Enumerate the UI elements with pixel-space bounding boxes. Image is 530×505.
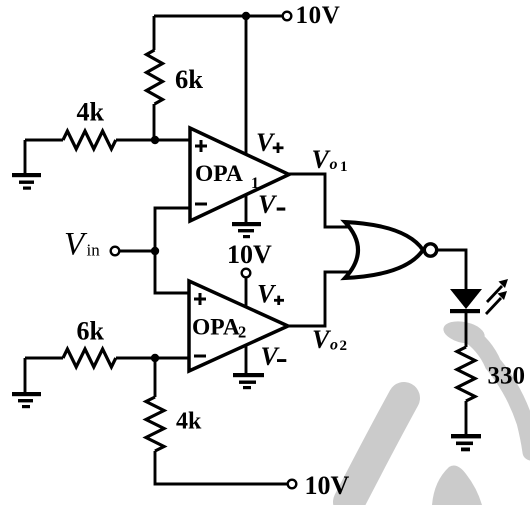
svg-text:4k: 4k bbox=[176, 409, 202, 435]
svg-text:o: o bbox=[330, 156, 338, 173]
svg-text:V: V bbox=[258, 190, 278, 219]
svg-text:2: 2 bbox=[238, 323, 246, 342]
svg-text:10V: 10V bbox=[305, 471, 350, 500]
svg-text:6k: 6k bbox=[175, 64, 203, 94]
svg-text:10V: 10V bbox=[227, 240, 272, 269]
svg-text:10V: 10V bbox=[296, 2, 341, 29]
svg-text:in: in bbox=[87, 241, 101, 260]
svg-text:V: V bbox=[312, 325, 332, 354]
svg-text:V: V bbox=[261, 342, 281, 371]
svg-text:V: V bbox=[256, 128, 276, 157]
svg-text:V: V bbox=[257, 280, 277, 309]
svg-text:2: 2 bbox=[340, 338, 348, 354]
svg-text:o: o bbox=[330, 337, 338, 354]
svg-text:V: V bbox=[312, 145, 332, 174]
svg-text:6k: 6k bbox=[77, 317, 105, 346]
svg-text:330: 330 bbox=[488, 363, 526, 390]
svg-text:1: 1 bbox=[340, 159, 348, 175]
svg-text:OPA: OPA bbox=[195, 161, 243, 187]
svg-text:4k: 4k bbox=[77, 98, 105, 127]
svg-text:OPA: OPA bbox=[192, 315, 240, 341]
